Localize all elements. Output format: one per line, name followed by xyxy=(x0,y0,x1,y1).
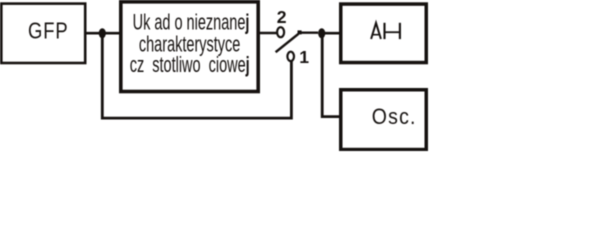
wire junction to AH box xyxy=(322,32,341,35)
wire pivot to junction node xyxy=(301,32,318,34)
wire junction down and right to Osc box xyxy=(322,34,340,117)
block GFP (generator) xyxy=(1,4,85,63)
node junction dot before AH xyxy=(318,28,325,38)
block Osc. (oscilloscope) xyxy=(341,90,427,150)
wire GFP output to Układ box input xyxy=(85,32,121,35)
switch contact 2 circle xyxy=(277,27,284,37)
label letter A of AH xyxy=(371,23,381,39)
switch arm (wiper) xyxy=(276,34,299,52)
block AH (analyzer) xyxy=(341,4,427,63)
switch pivot square xyxy=(298,30,302,34)
svg-text:1: 1 xyxy=(299,47,309,67)
block Układ o nieznanej charakterystyce częstotliwościowej xyxy=(121,2,258,92)
svg-text:cz stotliwo ciowej: cz stotliwo ciowej xyxy=(130,52,250,77)
svg-text:GFP: GFP xyxy=(28,19,69,45)
wire bypass: down from junction, along bottom, up to switch contact 1 xyxy=(102,33,291,118)
label letter H of AH (wide) xyxy=(383,23,385,39)
wire Układ box output to switch contact 2 xyxy=(259,32,278,35)
node junction dot after GFP xyxy=(99,28,106,38)
switch contact 1 circle xyxy=(287,52,294,61)
svg-text:2: 2 xyxy=(277,7,287,27)
svg-text:Osc.: Osc. xyxy=(372,105,417,130)
